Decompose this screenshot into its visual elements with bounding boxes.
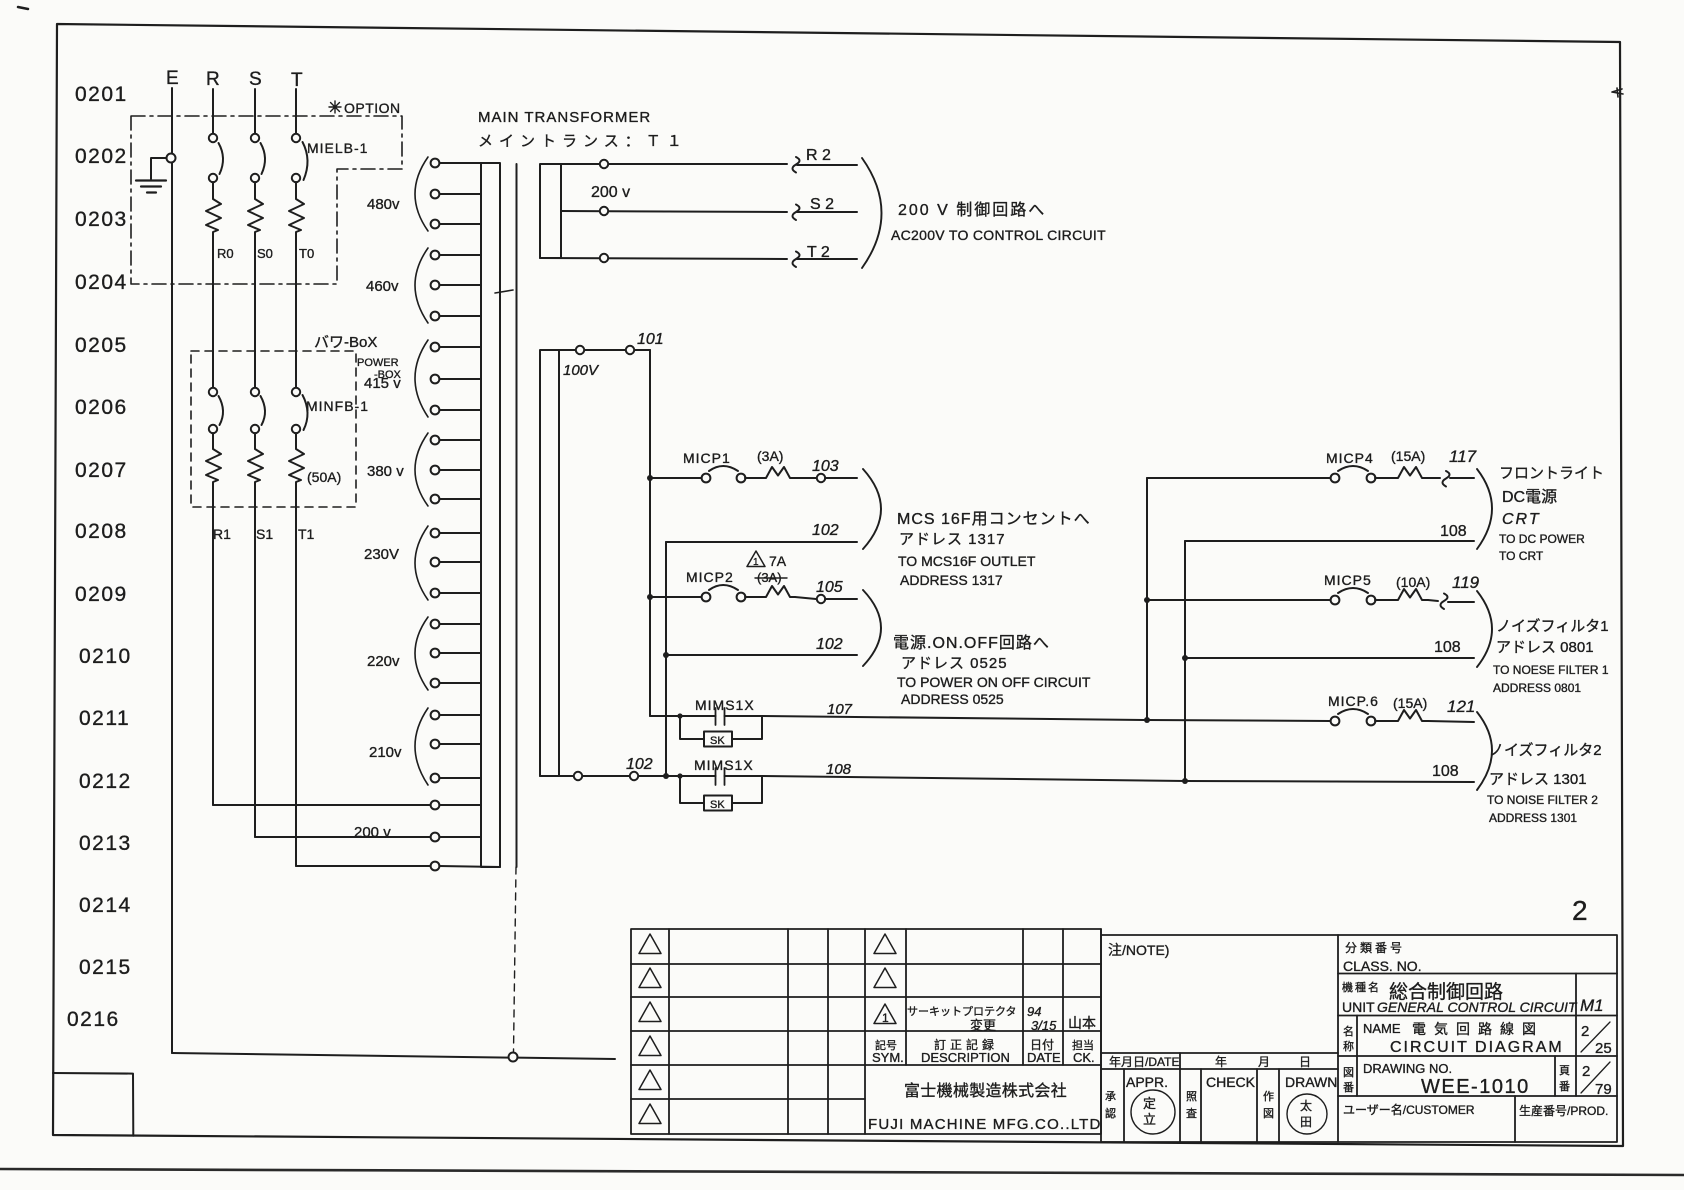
svg-text:E: E <box>166 68 179 89</box>
svg-text:図: 図 <box>1263 1107 1274 1120</box>
svg-text:0203: 0203 <box>75 208 128 231</box>
svg-text:MIMS1X: MIMS1X <box>694 757 754 773</box>
brace 230v group <box>415 526 428 600</box>
svg-text:DC電源: DC電源 <box>1502 488 1557 506</box>
svg-text:T 2: T 2 <box>807 244 830 261</box>
wire 108 long <box>763 776 1185 781</box>
svg-text:MCS 16F用コンセントへ: MCS 16F用コンセントへ <box>897 511 1091 528</box>
revision triangles right column <box>874 934 896 1024</box>
svg-text:称: 称 <box>1343 1039 1354 1053</box>
wire R1 to transformer <box>213 804 430 806</box>
brace 380v group <box>415 433 428 506</box>
svg-text:定: 定 <box>1143 1096 1156 1111</box>
label 102 b <box>816 636 843 653</box>
switch MIMS1X (107) <box>650 708 763 747</box>
revision header row <box>872 1037 1095 1065</box>
title block right <box>1338 935 1617 1142</box>
svg-text:2: 2 <box>1572 895 1588 926</box>
svg-text:ノイズフィルタ1: ノイズフィルタ1 <box>1496 618 1609 635</box>
svg-text:0210: 0210 <box>79 645 132 668</box>
wire S1 to transformer <box>255 836 430 838</box>
svg-text:CRT: CRT <box>1502 511 1541 528</box>
revision table right <box>865 929 1101 1134</box>
resistor S1 <box>248 433 263 837</box>
svg-text:107: 107 <box>827 701 853 718</box>
drawing no row <box>1343 1061 1612 1098</box>
svg-text:MICP2: MICP2 <box>686 569 734 585</box>
transformer core <box>516 164 518 867</box>
svg-text:102: 102 <box>816 636 843 653</box>
breaker MICP6 <box>1147 709 1474 725</box>
ground <box>136 154 176 193</box>
svg-text:220v: 220v <box>367 653 400 670</box>
svg-text:210v: 210v <box>369 744 402 761</box>
output brace MICP1 <box>863 469 881 549</box>
pen mark <box>495 290 513 293</box>
svg-text:注/NOTE): 注/NOTE) <box>1108 942 1169 958</box>
svg-text:480v: 480v <box>367 196 400 213</box>
terminal 460v tap 1 <box>431 251 481 260</box>
wire 102 a <box>666 541 857 543</box>
svg-text:DATE: DATE <box>1027 1050 1061 1065</box>
svg-text:NAME: NAME <box>1363 1021 1401 1036</box>
svg-text:105: 105 <box>816 579 843 596</box>
svg-text:SK: SK <box>710 735 725 747</box>
labels R2 S2 T2 <box>806 147 834 261</box>
label SK 1 <box>710 735 725 747</box>
resistor R0 <box>206 182 221 388</box>
svg-text:TO CRT: TO CRT <box>1499 549 1544 563</box>
svg-text:R1: R1 <box>213 526 231 542</box>
svg-text:TO MCS16F OUTLET: TO MCS16F OUTLET <box>898 553 1036 569</box>
svg-text:CK.: CK. <box>1073 1050 1095 1065</box>
breaker box MIELB-1 (dash-dot) <box>131 116 402 284</box>
terminal 480v tap 1 <box>431 159 481 168</box>
svg-text:R: R <box>206 69 220 90</box>
svg-text:DRAWING NO.: DRAWING NO. <box>1363 1061 1452 1076</box>
svg-text:M1: M1 <box>1580 996 1604 1015</box>
svg-text:MICP5: MICP5 <box>1324 572 1372 588</box>
svg-text:(3A): (3A) <box>757 448 783 464</box>
svg-text:108: 108 <box>826 761 852 778</box>
wire T2 <box>540 252 857 268</box>
label R1 S1 T1 <box>213 526 315 542</box>
label 101 <box>637 331 664 348</box>
note noise filter 2 <box>1487 742 1602 825</box>
svg-text:460v: 460v <box>366 278 399 295</box>
wire 108-3 <box>1185 781 1474 782</box>
breaker MICP1 <box>650 466 857 482</box>
class no <box>1343 941 1422 974</box>
svg-text:380 v: 380 v <box>367 463 404 480</box>
wire 107 long <box>763 716 1147 720</box>
svg-text:R 2: R 2 <box>806 147 831 164</box>
svg-text:T0: T0 <box>299 246 314 261</box>
svg-text:103: 103 <box>812 458 839 475</box>
node junction 101/MICP1 <box>647 475 653 481</box>
svg-text:MIELB-1: MIELB-1 <box>307 140 368 156</box>
label MINFB-1 <box>306 398 369 414</box>
svg-text:0215: 0215 <box>79 956 132 979</box>
wire R top <box>212 89 214 133</box>
label power box jp <box>314 334 402 381</box>
transformer T1 primary winding <box>481 163 500 867</box>
terminal 460v tap 2 <box>431 281 481 290</box>
wire E bottom horizontal <box>172 1053 615 1059</box>
node junction 108-2 <box>1182 655 1188 661</box>
svg-text:(50A): (50A) <box>307 469 341 485</box>
svg-text:認: 認 <box>1105 1106 1116 1120</box>
svg-text:0216: 0216 <box>67 1008 120 1031</box>
svg-text:年月日/DATE: 年月日/DATE <box>1109 1055 1179 1069</box>
svg-text:100V: 100V <box>563 362 600 379</box>
resistor T1 <box>289 433 304 866</box>
svg-text:2: 2 <box>1581 1023 1589 1040</box>
terminal 220v tap 3 <box>431 679 481 688</box>
svg-text:SYM.: SYM. <box>872 1050 904 1065</box>
svg-text:生産番号/PROD.: 生産番号/PROD. <box>1519 1103 1608 1118</box>
label MICP5 (10A) 119 <box>1324 572 1480 592</box>
label note <box>1108 942 1169 958</box>
svg-text:図: 図 <box>1343 1066 1354 1079</box>
wire 108 from secondary <box>540 772 716 780</box>
svg-text:GENERAL CONTROL CIRCUIT: GENERAL CONTROL CIRCUIT <box>1377 999 1578 1015</box>
label 200v <box>591 184 630 201</box>
svg-text:TO NOESE FILTER 1: TO NOESE FILTER 1 <box>1493 663 1609 677</box>
svg-text:アドレス 1301: アドレス 1301 <box>1489 771 1587 788</box>
svg-text:アドレス 0525: アドレス 0525 <box>901 655 1008 672</box>
label MICP6 (15A) 121 <box>1328 693 1475 716</box>
row labels 0201-0216 <box>67 83 132 1031</box>
wire E vertical <box>171 88 173 1053</box>
svg-text:アドレス 1317: アドレス 1317 <box>899 531 1006 548</box>
svg-text:ADDRESS 1317: ADDRESS 1317 <box>900 572 1003 588</box>
svg-text:T1: T1 <box>298 526 315 542</box>
terminal 200v tap 2 <box>431 833 481 842</box>
svg-text:2: 2 <box>1582 1063 1590 1080</box>
svg-text:ユーザー名/CUSTOMER: ユーザー名/CUSTOMER <box>1343 1102 1475 1117</box>
svg-text:AC200V TO CONTROL CIRCUIT: AC200V TO CONTROL CIRCUIT <box>891 227 1106 243</box>
brace 460v group <box>415 248 428 323</box>
svg-text:(15A): (15A) <box>1391 448 1425 464</box>
terminal 230v tap 2 <box>431 558 481 567</box>
svg-text:R0: R0 <box>217 246 234 261</box>
note front light <box>1499 465 1604 563</box>
svg-text:119: 119 <box>1452 573 1480 592</box>
svg-text:1: 1 <box>753 557 759 568</box>
svg-text:MICP4: MICP4 <box>1326 450 1374 466</box>
svg-text:承: 承 <box>1105 1090 1116 1103</box>
svg-text:ADDRESS 0525: ADDRESS 0525 <box>901 691 1004 707</box>
label 102 a <box>812 522 839 539</box>
wire 101 top <box>559 346 650 354</box>
svg-text:MIMS1X: MIMS1X <box>695 697 755 713</box>
svg-text:101: 101 <box>637 331 664 348</box>
svg-text:102: 102 <box>626 756 653 773</box>
revision table left <box>631 929 865 1134</box>
svg-text:230V: 230V <box>364 546 399 563</box>
terminal 210v tap 3 <box>431 774 481 783</box>
svg-text:番: 番 <box>1559 1080 1570 1093</box>
svg-text:変更: 変更 <box>970 1018 996 1033</box>
svg-text:フロントライト: フロントライト <box>1499 465 1604 482</box>
svg-text:0201: 0201 <box>75 83 128 106</box>
svg-text:MAIN TRANSFORMER: MAIN TRANSFORMER <box>478 109 651 126</box>
svg-text:0208: 0208 <box>75 520 128 543</box>
brace 210v group <box>415 708 428 785</box>
note power on off <box>893 634 1091 707</box>
breaker contact R <box>209 134 223 182</box>
label MAIN TRANSFORMER <box>478 109 688 150</box>
label R0 S0 T0 <box>217 246 314 261</box>
brace 415v group <box>415 340 428 417</box>
svg-text:OPTION: OPTION <box>344 100 401 116</box>
svg-text:CLASS. NO.: CLASS. NO. <box>1343 958 1422 974</box>
svg-text:立: 立 <box>1143 1112 1156 1127</box>
terminal 200v tap 1 <box>431 801 481 810</box>
label 102 c <box>626 756 653 773</box>
brace 480v group <box>415 157 428 231</box>
breaker contact R1 <box>209 388 223 433</box>
terminal 220v tap 2 <box>431 649 481 658</box>
svg-text:メイントランス：Ｔ１: メイントランス：Ｔ１ <box>478 133 688 150</box>
terminal 380v tap 3 <box>431 495 481 504</box>
terminal 415v tap 1 <box>431 343 481 352</box>
label MIELB-1 <box>307 140 368 156</box>
wire 102 bus vertical <box>665 542 667 776</box>
terminal 200v tap 3 <box>431 862 500 871</box>
switch MIMS1X (108) <box>680 768 763 811</box>
note 200V control circuit <box>891 201 1106 243</box>
label 108-3 <box>1432 763 1459 780</box>
node junction 101/MICP2 <box>647 594 653 600</box>
breaker MICP5 <box>1147 588 1474 609</box>
svg-text:バワ-BoX: バワ-BoX <box>314 334 377 351</box>
breaker contact T <box>292 134 308 182</box>
terminal 230v tap 1 <box>431 529 481 538</box>
label MICP1 (3A) 103 <box>683 448 839 475</box>
breaker MICP2 <box>650 585 857 603</box>
node E label <box>166 68 303 91</box>
svg-text:照: 照 <box>1186 1090 1197 1103</box>
label (50A) <box>307 469 341 485</box>
svg-text:108: 108 <box>1432 763 1459 780</box>
power box (dashed) <box>191 351 356 507</box>
svg-text:番: 番 <box>1343 1081 1354 1094</box>
terminal 380v tap 1 <box>431 436 481 445</box>
svg-text:7A: 7A <box>769 553 787 569</box>
svg-text:117: 117 <box>1449 447 1477 466</box>
svg-text:T: T <box>291 70 303 91</box>
svg-text:CHECK: CHECK <box>1206 1074 1256 1090</box>
terminal 230v tap 3 <box>431 589 481 598</box>
label 100V <box>563 362 600 379</box>
date/approval table <box>1101 1053 1338 1142</box>
svg-text:S: S <box>249 69 262 90</box>
svg-text:0214: 0214 <box>79 894 132 917</box>
svg-text:年: 年 <box>1215 1055 1227 1069</box>
svg-text:DESCRIPTION: DESCRIPTION <box>921 1050 1010 1065</box>
svg-text:作: 作 <box>1263 1090 1274 1103</box>
voltage labels <box>364 196 404 761</box>
svg-text:0213: 0213 <box>79 832 132 855</box>
svg-text:電気回路線図: 電気回路線図 <box>1412 1021 1544 1037</box>
svg-text:ADDRESS 0801: ADDRESS 0801 <box>1493 681 1581 695</box>
svg-text:102: 102 <box>812 522 839 539</box>
svg-text:0209: 0209 <box>75 583 128 606</box>
svg-text:S 2: S 2 <box>810 196 834 213</box>
svg-text:名: 名 <box>1343 1024 1354 1038</box>
svg-text:分類番号: 分類番号 <box>1345 941 1405 955</box>
revision triangle 7A <box>747 551 765 567</box>
svg-text:MICP1: MICP1 <box>683 450 731 466</box>
svg-text:電源.ON.OFF回路へ: 電源.ON.OFF回路へ <box>893 634 1050 652</box>
svg-text:94: 94 <box>1027 1004 1041 1019</box>
wire bus 108 right vertical <box>1184 541 1186 781</box>
wire 108-1 <box>1185 540 1474 542</box>
revision triangles left column <box>639 934 661 1124</box>
core ground dashed wire <box>514 867 517 1052</box>
svg-text:200 V 制御回路へ: 200 V 制御回路へ <box>898 201 1046 219</box>
approval labels <box>1105 1074 1337 1120</box>
svg-text:SK: SK <box>710 799 725 811</box>
strike through 3A <box>755 577 787 579</box>
revision entry text <box>907 1004 1096 1033</box>
svg-text:FUJI MACHINE MFG.CO..LTD: FUJI MACHINE MFG.CO..LTD <box>868 1116 1102 1133</box>
label MICP4 (15A) 117 <box>1326 447 1477 466</box>
wire R2 <box>561 157 857 173</box>
terminal 210v tap 2 <box>431 740 481 749</box>
wire T1 to transformer <box>296 865 430 867</box>
svg-text:POWER: POWER <box>357 357 399 369</box>
svg-text:(10A): (10A) <box>1396 574 1430 590</box>
svg-text:0205: 0205 <box>75 334 128 357</box>
transformer 200V secondary <box>540 164 561 258</box>
label 200v bottom <box>354 824 391 841</box>
svg-text:サーキットプロテクタ: サーキットプロテクタ <box>907 1005 1017 1018</box>
terminal 210v tap 1 <box>431 711 481 720</box>
svg-text:MICP.6: MICP.6 <box>1328 693 1379 709</box>
svg-text:査: 査 <box>1186 1106 1197 1120</box>
breaker contact T1 <box>292 388 308 433</box>
svg-text:富士機械製造株式会社: 富士機械製造株式会社 <box>904 1082 1067 1100</box>
svg-text:MINFB-1: MINFB-1 <box>306 398 369 414</box>
svg-text:田: 田 <box>1300 1115 1312 1129</box>
tap group braces <box>415 157 428 785</box>
stamp DRAWN <box>1287 1094 1327 1134</box>
resistor T0 <box>289 182 304 388</box>
breaker contact S <box>251 134 265 182</box>
terminal 460v tap 3 <box>431 312 481 321</box>
svg-text:415 v: 415 v <box>364 375 401 392</box>
customer row <box>1343 1102 1608 1118</box>
wire bus 107 right vertical <box>1146 478 1148 720</box>
svg-text:アドレス 0801: アドレス 0801 <box>1496 639 1594 656</box>
wire S2 <box>561 205 857 221</box>
wire 102 b <box>666 654 857 656</box>
wire 101 bus vertical <box>649 350 651 716</box>
stamp APPR <box>1131 1090 1175 1134</box>
svg-text:0204: 0204 <box>75 271 128 294</box>
svg-text:S0: S0 <box>257 246 273 261</box>
svg-text:山本: 山本 <box>1068 1015 1096 1031</box>
label MICP2 7A (3A) 105 <box>686 553 843 596</box>
terminal 415v tap 2 <box>431 375 481 384</box>
wire T top <box>295 89 297 133</box>
primary tap terminals <box>431 159 500 871</box>
note cell <box>1101 929 1338 1053</box>
terminal 380v tap 2 <box>431 466 481 475</box>
svg-text:UNIT: UNIT <box>1342 999 1375 1015</box>
svg-text:0202: 0202 <box>75 145 128 168</box>
terminal 220v tap 1 <box>431 620 481 629</box>
page number 2 <box>1572 895 1588 926</box>
unit row <box>1342 980 1604 1015</box>
wire 108-2 <box>1185 657 1474 659</box>
output brace 200V <box>862 158 882 268</box>
svg-text:25: 25 <box>1595 1040 1612 1057</box>
svg-text:200 v: 200 v <box>591 184 630 201</box>
svg-text:月: 月 <box>1258 1055 1270 1069</box>
svg-text:ノイズフィルタ2: ノイズフィルタ2 <box>1489 742 1602 759</box>
node junction 108-3 <box>1182 778 1188 784</box>
svg-text:3/15: 3/15 <box>1031 1018 1057 1033</box>
svg-text:S1: S1 <box>256 526 273 542</box>
node junction 102/108 <box>663 773 669 779</box>
terminal 480v tap 3 <box>431 220 481 229</box>
terminal 480v tap 2 <box>431 190 481 199</box>
revision 1 mark <box>882 1011 889 1025</box>
svg-text:ADDRESS 1301: ADDRESS 1301 <box>1489 811 1577 825</box>
svg-text:機種名: 機種名 <box>1342 980 1381 994</box>
label SK 2 <box>710 799 725 811</box>
svg-text:日: 日 <box>1299 1055 1311 1069</box>
breaker MICP4 <box>1147 466 1474 487</box>
node junction MICP6 <box>1144 717 1150 723</box>
svg-text:200 v: 200 v <box>354 824 391 841</box>
svg-text:1: 1 <box>882 1011 889 1025</box>
svg-text:108: 108 <box>1440 523 1467 540</box>
resistor R1 <box>206 433 221 805</box>
node core-ground circle <box>509 1053 518 1062</box>
date header labels <box>1109 1055 1311 1069</box>
svg-text:DRAWN: DRAWN <box>1285 1074 1337 1090</box>
svg-text:0211: 0211 <box>79 707 130 730</box>
svg-text:太: 太 <box>1300 1098 1312 1113</box>
svg-text:TO DC POWER: TO DC POWER <box>1499 532 1585 546</box>
note MCS16F outlet <box>897 511 1091 588</box>
transformer 100V secondary <box>540 350 559 776</box>
wire S top <box>254 89 256 133</box>
label 108-2 <box>1434 639 1461 656</box>
svg-text:79: 79 <box>1595 1081 1612 1098</box>
brace 220v group <box>415 617 428 690</box>
svg-text:TO NOISE FILTER 2: TO NOISE FILTER 2 <box>1487 793 1598 807</box>
node junction MICP5 <box>1144 597 1150 603</box>
terminal 415v tap 3 <box>431 406 481 415</box>
svg-text:TO POWER ON OFF CIRCUIT: TO POWER ON OFF CIRCUIT <box>897 674 1091 690</box>
breaker contact S1 <box>251 388 265 433</box>
svg-text:121: 121 <box>1447 697 1475 716</box>
resistor S0 <box>248 182 263 388</box>
svg-text:WEE-1010: WEE-1010 <box>1421 1076 1530 1098</box>
company cell <box>868 1082 1102 1133</box>
svg-text:0207: 0207 <box>75 459 128 482</box>
svg-text:CIRCUIT DIAGRAM: CIRCUIT DIAGRAM <box>1390 1039 1564 1056</box>
output brace MICP2 <box>863 590 881 666</box>
name row <box>1343 1021 1612 1057</box>
svg-text:頁: 頁 <box>1559 1065 1570 1077</box>
